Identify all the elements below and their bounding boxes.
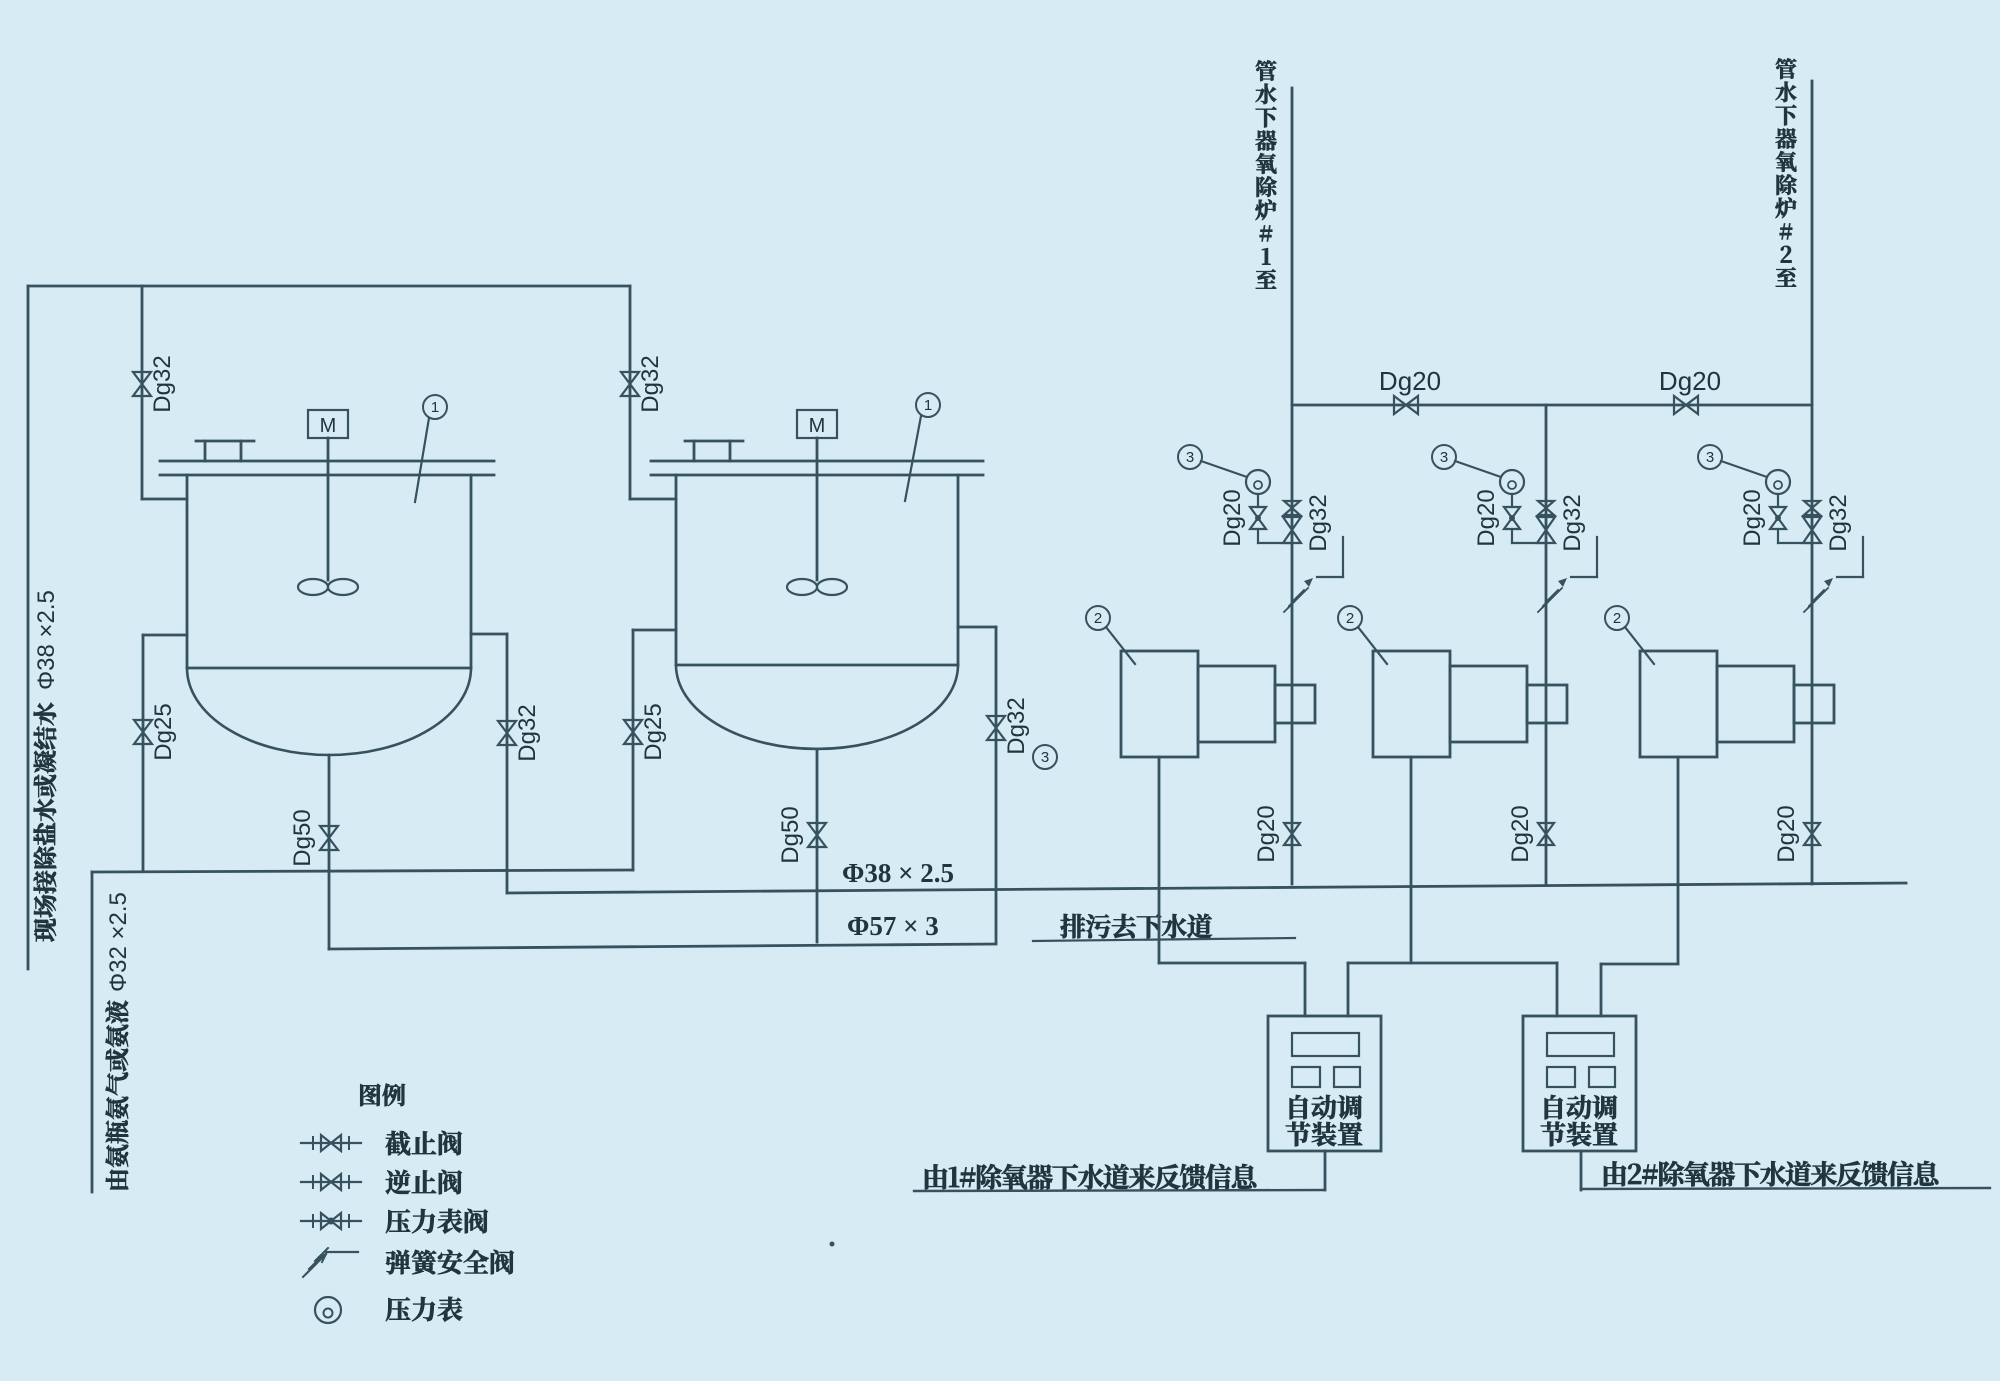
- svg-text:Dg25: Dg25: [640, 703, 667, 760]
- wire: feedback line deaerator2: [1581, 1188, 1990, 1189]
- valve Dg25 tank2 left drain: [624, 720, 642, 744]
- wire: pump P3 suction: [1677, 757, 1680, 963]
- automatic regulator controller2 box: [1523, 1016, 1636, 1151]
- legend gauge valve symbol: [301, 1220, 361, 1222]
- svg-text:1: 1: [924, 397, 932, 414]
- wire: controller1 feedback stub: [1324, 1151, 1327, 1190]
- wire: tank2 feed drop: [629, 286, 632, 499]
- legend gauge valve text: [386, 1209, 488, 1234]
- tank T1 shell: [186, 475, 189, 668]
- tank T2 lid: [651, 460, 983, 463]
- wire: balloon pointer riser2: [1455, 461, 1501, 477]
- wire: safety valve discharge riser3: [1837, 576, 1863, 578]
- balloon 2 pump P3: [1605, 606, 1629, 630]
- wire: tank2 left takeoff: [633, 629, 676, 632]
- wire: pump P1 discharge down: [1291, 723, 1294, 884]
- wire: safety valve discharge riser1: [1317, 576, 1343, 578]
- legend title: [360, 1084, 405, 1107]
- pressure gauge riser3: [1766, 470, 1790, 494]
- wire: pump P1 suction: [1158, 757, 1161, 963]
- pump P2 motor box: [1450, 666, 1527, 742]
- check valve riser2: [1538, 501, 1554, 515]
- svg-text:1: 1: [431, 399, 439, 416]
- valve Dg50 tank1 drain: [320, 826, 338, 850]
- wire: ammonia/drain header: [92, 870, 633, 872]
- legend check valve text: [386, 1170, 462, 1195]
- controller2 label: [1545, 1095, 1617, 1120]
- tank T1 dished bottom: [187, 668, 471, 755]
- wire: suction header Phi38: [507, 883, 1906, 893]
- wire: ammonia inlet riser: [91, 872, 94, 1192]
- legend safety valve symbol: [303, 1248, 328, 1277]
- svg-text:Dg20: Dg20: [1507, 805, 1534, 862]
- balloon 3 riser3: [1698, 445, 1722, 469]
- controller2 button right: [1589, 1067, 1615, 1087]
- legend check valve symbol: [301, 1181, 361, 1183]
- node label: to No.2 deaerator downpipe: [1776, 58, 1797, 79]
- node label: to No.1 deaerator downpipe: [1256, 60, 1277, 81]
- agitator propeller tank2: [787, 579, 817, 595]
- wire: tank1 feed drop: [141, 286, 144, 499]
- wire: tank1 left takeoff: [143, 634, 187, 637]
- wire: balloon pointer P2: [1358, 627, 1387, 664]
- legend stop valve text: [386, 1131, 462, 1156]
- wire: demin-water inlet riser: [27, 286, 30, 969]
- tank T2 dished bottom: [676, 665, 958, 749]
- svg-text:Dg25: Dg25: [150, 703, 177, 760]
- svg-text:Dg50: Dg50: [777, 806, 804, 863]
- legend pressure gauge symbol: [315, 1297, 341, 1323]
- balloon 3 tank2 drain: [1033, 745, 1057, 769]
- stop valve Dg32 riser3: [1803, 517, 1821, 543]
- valve Dg20 gauge valve riser2: [1504, 507, 1520, 529]
- stop valve Dg32 riser1: [1283, 517, 1301, 543]
- motor M tank2: [797, 410, 837, 438]
- svg-text:Dg32: Dg32: [1559, 494, 1586, 551]
- valve Dg20 crossover right: [1674, 396, 1698, 414]
- tank T2 shell: [675, 475, 678, 665]
- wire: top feed header: [28, 285, 630, 288]
- wire: pump P2 discharge down: [1545, 723, 1548, 884]
- svg-text:Dg20: Dg20: [1219, 489, 1246, 546]
- controller1 display window: [1292, 1033, 1359, 1056]
- svg-text:Dg50: Dg50: [289, 809, 316, 866]
- wire: blowdown underline: [1033, 938, 1295, 941]
- wire: tank1 bottom drain: [328, 755, 331, 949]
- tank T1 lid nozzle: [196, 440, 254, 443]
- wire: signal pump2 to controllers: [1348, 962, 1557, 965]
- svg-text:Dg20: Dg20: [1253, 805, 1280, 862]
- balloon 2 pump P2: [1338, 606, 1362, 630]
- valve Dg20 gauge valve riser1: [1250, 507, 1266, 529]
- wire: riser to boiler1 deaerator: [1291, 88, 1294, 723]
- valve Dg32 tank2 right drain: [987, 716, 1005, 740]
- wire: feedback line deaerator1: [914, 1190, 1325, 1191]
- agitator shaft tank2: [816, 438, 819, 580]
- controller1 button right: [1334, 1067, 1360, 1087]
- wire: signal pump1 to controller1: [1159, 962, 1305, 965]
- balloon 1 tank1: [423, 395, 447, 419]
- svg-text:Φ38 ×2.5: Φ38 ×2.5: [33, 590, 60, 690]
- svg-text:Dg20: Dg20: [1659, 366, 1721, 396]
- wire: gauge stem riser1: [1257, 494, 1259, 507]
- pressure gauge riser2: [1500, 470, 1524, 494]
- svg-text:Dg20: Dg20: [1473, 489, 1500, 546]
- controller1 button left: [1292, 1067, 1320, 1087]
- check valve riser3: [1804, 501, 1820, 515]
- valve Dg50 tank2 drain: [808, 823, 826, 847]
- pump P3 head box: [1640, 651, 1717, 757]
- wire: tank2 right takeoff: [958, 626, 996, 629]
- svg-text:Φ32 ×2.5: Φ32 ×2.5: [105, 892, 132, 992]
- wire: balloon pointer riser3: [1721, 461, 1767, 477]
- valve Dg20 gauge valve riser3: [1770, 507, 1786, 529]
- agitator propeller tank1: [298, 579, 328, 595]
- controller2 button left: [1547, 1067, 1575, 1087]
- wire: drain line Phi57: [329, 944, 996, 949]
- wire: gauge branch riser3: [1777, 529, 1779, 543]
- wire: crossover header: [1292, 404, 1812, 407]
- valve Dg20 pump P3 discharge: [1804, 823, 1820, 845]
- wire: gauge branch riser2: [1511, 529, 1513, 543]
- safety valve riser2: [1538, 590, 1558, 612]
- stop valve Dg32 riser2: [1537, 517, 1555, 543]
- node label: feedback from No.2 deaerator: [1604, 1161, 1938, 1187]
- wire: safety valve discharge riser2: [1571, 576, 1597, 578]
- legend pressure gauge text: [386, 1297, 463, 1322]
- wire: pump2 discharge riser upper: [1545, 405, 1548, 723]
- svg-text:3: 3: [1440, 449, 1448, 466]
- balloon 1 tank2: [916, 393, 940, 417]
- check valve riser1: [1284, 501, 1300, 515]
- pressure gauge riser1: [1246, 470, 1270, 494]
- svg-text:Dg32: Dg32: [514, 704, 541, 761]
- node label: ammonia inlet text: [106, 1001, 129, 1190]
- svg-text:3: 3: [1706, 449, 1714, 466]
- wire: balloon pointer P3: [1625, 627, 1654, 664]
- legend stop valve symbol: [301, 1142, 361, 1144]
- wire: controller2 feedback stub: [1580, 1151, 1583, 1190]
- controller2 display window: [1547, 1033, 1614, 1056]
- pump P1 head box: [1121, 651, 1198, 757]
- svg-text:M: M: [809, 415, 826, 437]
- wire: pump P3 discharge down: [1811, 723, 1814, 884]
- balloon 3 riser2: [1432, 445, 1456, 469]
- safety valve riser3: [1804, 590, 1824, 612]
- stray mark: [830, 1242, 835, 1247]
- wire: tank1 right takeoff: [471, 633, 507, 636]
- svg-text:Φ38 × 2.5: Φ38 × 2.5: [842, 858, 954, 888]
- svg-text:2: 2: [1094, 610, 1102, 627]
- motor M tank1: [308, 410, 348, 438]
- valve Dg20 crossover left: [1394, 396, 1418, 414]
- svg-text:Dg32: Dg32: [637, 355, 664, 412]
- balloon 2 pump P1: [1086, 606, 1110, 630]
- node label: demin water inlet text: [34, 703, 57, 942]
- svg-text:Dg32: Dg32: [1825, 494, 1852, 551]
- automatic regulator controller1 box: [1268, 1016, 1381, 1151]
- wire: gauge stem riser2: [1511, 494, 1513, 507]
- tank T1 lid: [160, 460, 494, 463]
- svg-text:3: 3: [1186, 449, 1194, 466]
- svg-text:Dg20: Dg20: [1379, 366, 1441, 396]
- pump P1 motor box: [1198, 666, 1275, 742]
- valve Dg32 tank1 right drain: [498, 721, 516, 745]
- valve Dg32 tank1 feed: [133, 372, 151, 396]
- svg-text:Dg32: Dg32: [1305, 494, 1332, 551]
- wire: gauge stem riser3: [1777, 494, 1779, 507]
- svg-text:Φ57 × 3: Φ57 × 3: [847, 911, 939, 941]
- svg-text:Dg20: Dg20: [1739, 489, 1766, 546]
- pump P2 head box: [1373, 651, 1450, 757]
- wire: tank2 feed stub: [630, 498, 676, 501]
- svg-text:3: 3: [1041, 749, 1049, 766]
- valve Dg25 tank1 left drain: [134, 720, 152, 744]
- wire: tank2 bottom drain: [816, 749, 819, 942]
- wire: signal pump3 to controller2: [1601, 963, 1678, 966]
- svg-text:M: M: [320, 415, 337, 437]
- valve Dg32 tank2 feed: [621, 372, 639, 396]
- valve Dg20 pump P1 discharge: [1284, 823, 1300, 845]
- pump P2 discharge box: [1527, 685, 1567, 723]
- svg-text:Dg32: Dg32: [1003, 697, 1030, 754]
- svg-text:Dg32: Dg32: [149, 355, 176, 412]
- tank T2 lid nozzle: [685, 440, 743, 443]
- wire: balloon pointer P1: [1106, 627, 1135, 664]
- node label: feedback from No.1 deaerator: [925, 1164, 1256, 1190]
- legend safety valve text: [386, 1250, 514, 1275]
- node label: blowdown to sewer: [1060, 914, 1212, 939]
- safety valve riser1: [1284, 590, 1304, 612]
- wire: tank1 feed stub: [142, 498, 187, 501]
- svg-text:2: 2: [1346, 610, 1354, 627]
- svg-text:2: 2: [1613, 610, 1621, 627]
- pump P3 motor box: [1717, 666, 1794, 742]
- agitator shaft tank1: [327, 438, 330, 580]
- pump P1 discharge box: [1275, 685, 1315, 723]
- controller1 label: [1290, 1095, 1362, 1120]
- wire: gauge branch riser1: [1257, 529, 1259, 543]
- wire: pump P2 suction: [1410, 757, 1413, 963]
- wire: balloon pointer riser1: [1201, 461, 1247, 477]
- wire: riser to boiler2 deaerator: [1811, 81, 1814, 723]
- valve Dg20 pump P2 discharge: [1538, 823, 1554, 845]
- balloon 3 riser1: [1178, 445, 1202, 469]
- pump P3 discharge box: [1794, 685, 1834, 723]
- svg-text:Dg20: Dg20: [1773, 805, 1800, 862]
